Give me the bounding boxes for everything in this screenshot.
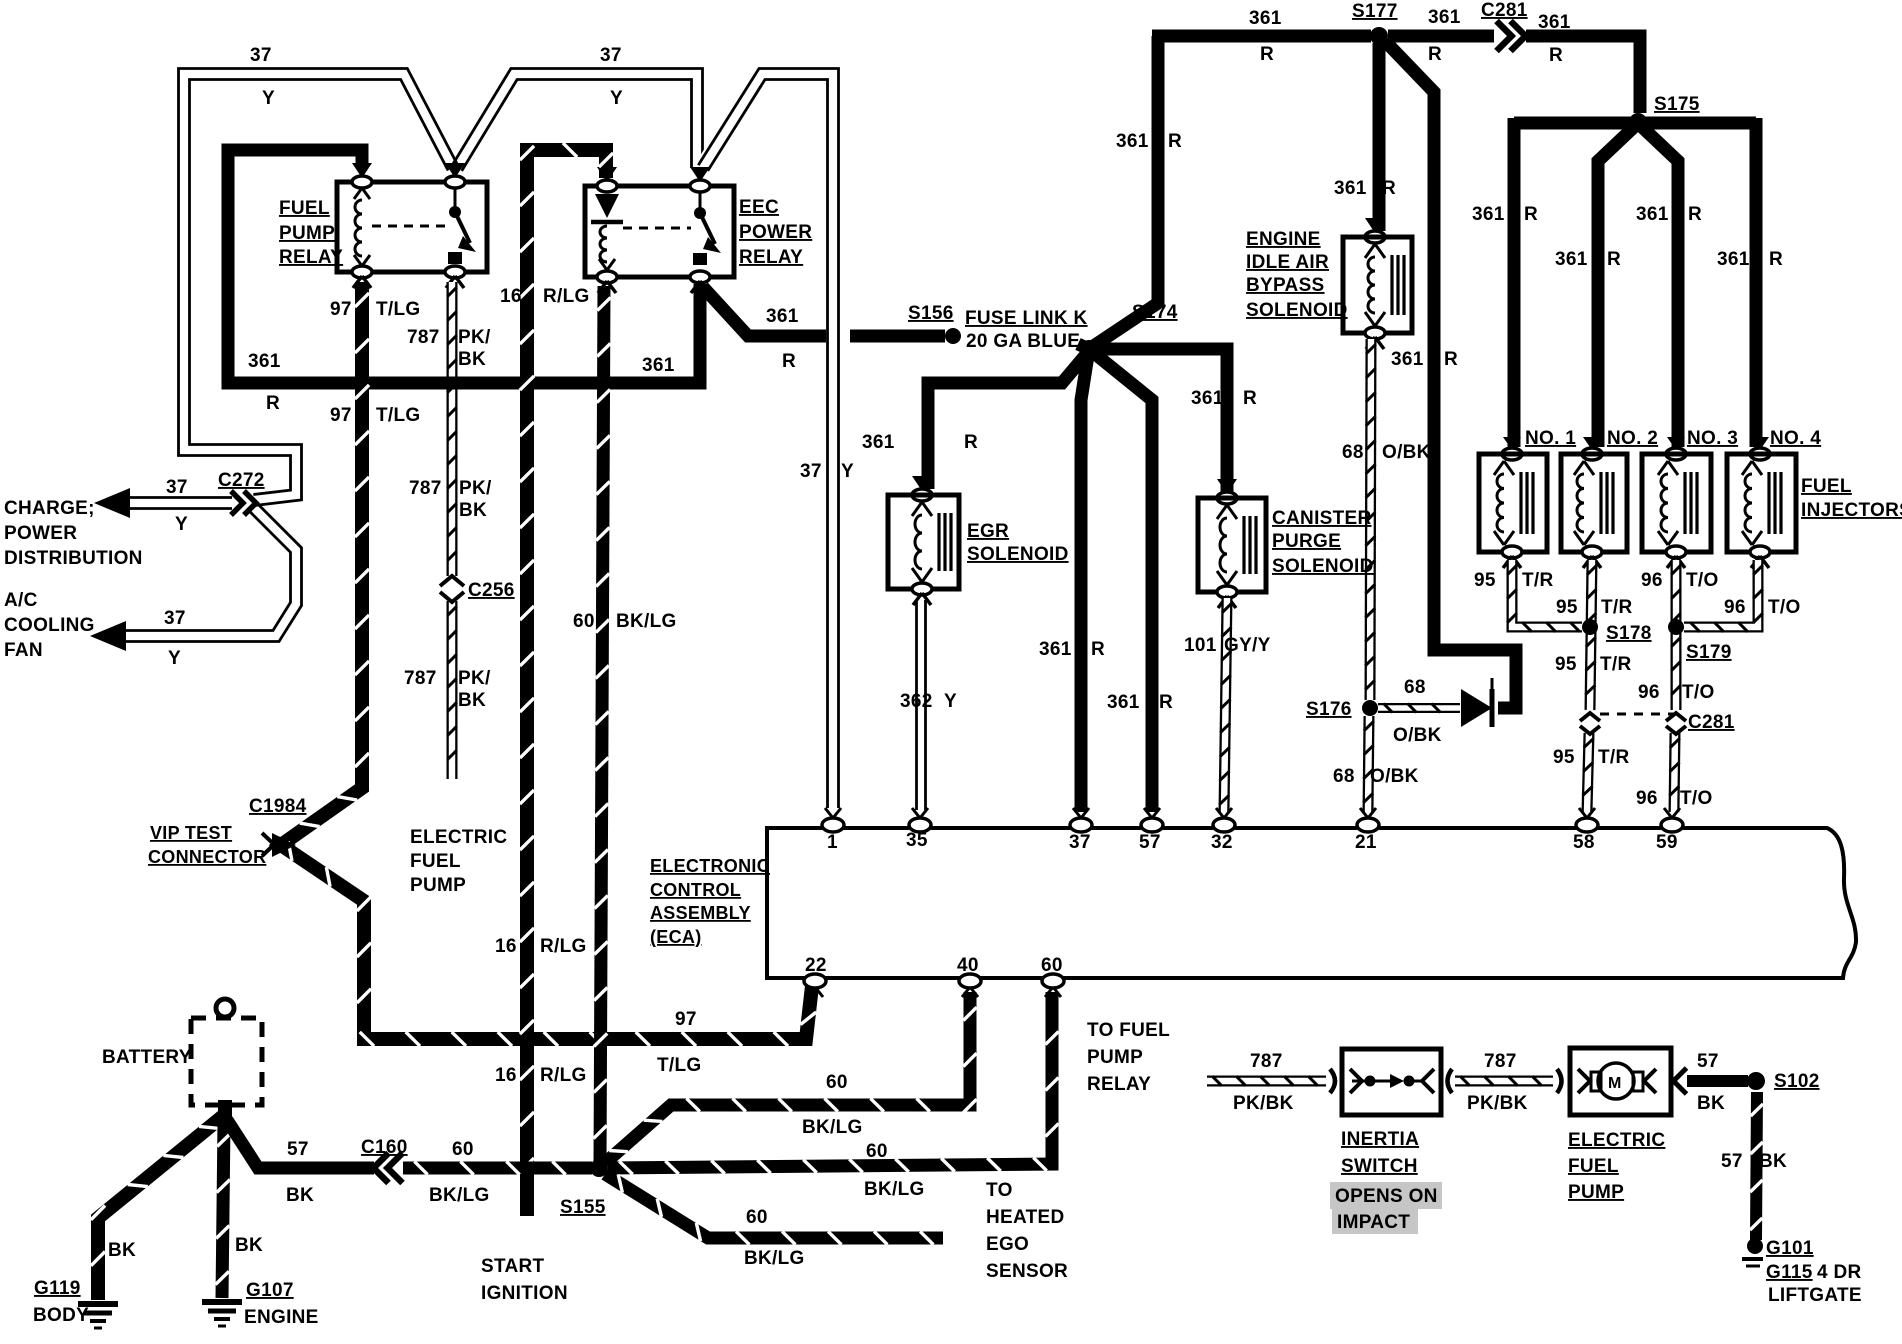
- connector symbol into electric fuel pump: [1557, 1069, 1562, 1093]
- svg-text:R: R: [1549, 45, 1563, 66]
- svg-text:FUEL: FUEL: [1568, 1156, 1619, 1177]
- svg-text:Y: Y: [944, 691, 957, 712]
- wire 37 Y loop: EEC relay pin to ECA pin 1: [698, 69, 838, 809]
- svg-text:PURGE: PURGE: [1272, 531, 1341, 552]
- svg-text:FUEL: FUEL: [410, 851, 461, 872]
- label 60 BK/LG pin60: [864, 1141, 925, 1200]
- fuel pump relay box: [337, 182, 487, 272]
- label ECA pin 32: [1211, 832, 1233, 853]
- label 60 BK/LG relay wire: [573, 611, 677, 632]
- svg-text:RELAY: RELAY: [1087, 1074, 1151, 1095]
- svg-text:O/BK: O/BK: [1393, 725, 1442, 746]
- label NO. 2: [1607, 428, 1658, 449]
- label INERTIA SWITCH: [1341, 1129, 1419, 1177]
- svg-text:EGO: EGO: [986, 1234, 1029, 1255]
- fuel injector NO. 1 output pin: [1502, 546, 1522, 568]
- svg-text:Y: Y: [168, 648, 181, 669]
- label BATTERY: [102, 1047, 192, 1068]
- svg-text:37: 37: [250, 45, 272, 66]
- svg-text:95: 95: [1553, 747, 1575, 768]
- label ECA pin 40: [957, 955, 979, 976]
- svg-text:OPENS ON: OPENS ON: [1335, 1186, 1438, 1207]
- wire 60 BK/LG: EEC relay to splice S155: [594, 286, 611, 1162]
- wire 361 R: fuse link segment: [850, 330, 945, 343]
- wire 37 Y: C272 to A/C cooling fan branch: [116, 504, 302, 641]
- label 97 T/LG bottom run: [657, 1009, 701, 1076]
- svg-text:37: 37: [1069, 832, 1091, 853]
- svg-text:R/LG: R/LG: [540, 936, 587, 957]
- ECA pin 60: [1042, 974, 1064, 997]
- svg-text:R: R: [1688, 204, 1702, 225]
- label 37 Y vertical: [800, 461, 854, 482]
- canister purge solenoid internals: [1217, 505, 1256, 585]
- label 16 R/LG lower: [495, 1065, 587, 1086]
- label FUSE LINK K: [965, 308, 1088, 329]
- fuel injector NO. 3 input pin: [1666, 437, 1686, 460]
- label C256: [468, 580, 515, 601]
- label 787 PK/BK left: [1233, 1051, 1294, 1114]
- wire 60 BK/LG: C160 to splice S155: [403, 1161, 592, 1174]
- connector C256 symbol: [440, 576, 464, 602]
- svg-text:G107: G107: [246, 1280, 294, 1301]
- label C160: [361, 1137, 408, 1158]
- ECA pin 35: [909, 808, 931, 832]
- label FUEL PUMP RELAY: [279, 198, 343, 268]
- wire 361 R: C281 to S175: [1526, 36, 1640, 113]
- label EEC POWER RELAY: [739, 197, 812, 268]
- svg-text:40: 40: [957, 955, 979, 976]
- svg-text:S156: S156: [908, 303, 954, 324]
- label EGR SOLENOID: [967, 521, 1069, 565]
- EGR solenoid input pin: [912, 476, 932, 501]
- text TO HEATED EGO SENSOR: [986, 1180, 1068, 1282]
- label 60 BK/LG ego: [744, 1207, 805, 1269]
- label G115: [1766, 1262, 1813, 1283]
- svg-text:BODY: BODY: [33, 1305, 89, 1326]
- label 361 R loop left: [248, 351, 281, 414]
- svg-text:IDLE AIR: IDLE AIR: [1246, 252, 1329, 273]
- splice S102: [1747, 1072, 1765, 1090]
- label ECA pin 22: [805, 955, 827, 976]
- svg-text:16: 16: [495, 1065, 517, 1086]
- label 361 R EGR feed: [862, 432, 978, 453]
- splice S178: [1582, 619, 1598, 635]
- label 361 R near EEC pin: [766, 306, 799, 372]
- label 95 T/R below S178: [1555, 654, 1632, 675]
- label S102: [1774, 1071, 1820, 1092]
- svg-text:R: R: [1524, 204, 1538, 225]
- wire 101 GY/Y: canister purge to ECA pin 32: [1219, 598, 1231, 812]
- wire 361 R: S174 to ECA pin 57: [1089, 349, 1152, 812]
- svg-text:R: R: [1168, 131, 1182, 152]
- ECA pin 40: [959, 974, 981, 997]
- label 96 T/O below S179: [1638, 682, 1715, 703]
- canister purge solenoid output pin: [1217, 586, 1237, 608]
- svg-text:37: 37: [166, 477, 188, 498]
- svg-text:R: R: [1769, 249, 1783, 270]
- label 37 Y top-mid: [600, 45, 623, 109]
- svg-text:(ECA): (ECA): [650, 927, 702, 947]
- label ENGINE IDLE AIR BYPASS SOLENOID: [1246, 229, 1348, 321]
- diode symbol at S176 branch: [1461, 678, 1492, 727]
- svg-text:4 DR: 4 DR: [1817, 1262, 1862, 1283]
- label 361 R injector2: [1555, 249, 1621, 270]
- wire 68 O/BK: idle air solenoid to S176: [1365, 339, 1376, 700]
- wire 362 Y: EGR solenoid to ECA pin 35: [917, 600, 926, 810]
- inertia switch box: [1342, 1049, 1441, 1115]
- label ECA pin 57: [1139, 832, 1161, 853]
- svg-text:BK/LG: BK/LG: [802, 1117, 863, 1138]
- svg-text:POWER: POWER: [4, 523, 77, 544]
- wire 361 R loop: EEC relay output to fuel pump relay coil: [228, 150, 700, 383]
- svg-text:SENSOR: SENSOR: [986, 1261, 1068, 1282]
- svg-text:96: 96: [1636, 788, 1658, 809]
- label ELECTRIC FUEL PUMP: [1568, 1130, 1665, 1203]
- svg-text:S176: S176: [1306, 699, 1352, 720]
- label 37 Y ac wire: [164, 608, 186, 669]
- connector symbol into inertia switch: [1330, 1069, 1335, 1093]
- svg-text:361: 361: [862, 432, 895, 453]
- svg-text:S177: S177: [1352, 1, 1398, 22]
- svg-text:PUMP: PUMP: [279, 223, 335, 244]
- label ECA pin 1: [827, 832, 838, 853]
- svg-text:361: 361: [1428, 7, 1461, 28]
- battery symbol: [191, 999, 262, 1105]
- wire 95 T/R: injector NO.2 to C281: [1585, 560, 1596, 710]
- connector symbol out of inertia switch: [1448, 1069, 1453, 1093]
- label 361 R after C281: [1538, 12, 1571, 66]
- svg-text:ASSEMBLY: ASSEMBLY: [650, 903, 751, 923]
- fuel injector NO. 4 output pin: [1750, 546, 1770, 568]
- fuel injector NO. 3 box: [1642, 454, 1711, 552]
- svg-text:G101: G101: [1766, 1238, 1814, 1259]
- svg-text:FAN: FAN: [4, 640, 43, 661]
- svg-text:37: 37: [600, 45, 622, 66]
- svg-text:32: 32: [1211, 832, 1233, 853]
- ECA pin 37: [1070, 808, 1092, 832]
- arrow to charge/power distribution: [94, 488, 130, 518]
- label 361 R on riser: [1116, 131, 1182, 152]
- label CANISTER PURGE SOLENOID: [1272, 508, 1374, 577]
- svg-text:T/R: T/R: [1598, 747, 1630, 768]
- idle air bypass solenoid output pin: [1365, 327, 1385, 349]
- label 787 PK/BK middle: [409, 478, 492, 521]
- svg-text:BK: BK: [286, 1185, 314, 1206]
- svg-text:787: 787: [1484, 1051, 1517, 1072]
- svg-text:R: R: [1607, 249, 1621, 270]
- svg-text:787: 787: [404, 668, 437, 689]
- svg-text:O/BK: O/BK: [1370, 766, 1419, 787]
- svg-text:S179: S179: [1686, 642, 1732, 663]
- fuel injector NO. 2 internals: [1574, 461, 1613, 545]
- wire 57 BK: battery to connector C160: [227, 1120, 374, 1168]
- svg-text:SOLENOID: SOLENOID: [1246, 300, 1348, 321]
- ECA pin 57: [1141, 808, 1163, 832]
- svg-text:G119: G119: [34, 1278, 81, 1299]
- svg-text:O/BK: O/BK: [1382, 442, 1431, 463]
- svg-text:BYPASS: BYPASS: [1246, 275, 1325, 296]
- label C1984: [249, 796, 307, 817]
- svg-text:361: 361: [1717, 249, 1750, 270]
- wire 361 R: S177 down to idle air solenoid: [1373, 43, 1386, 231]
- svg-text:16: 16: [500, 286, 522, 307]
- splice S174: [1080, 340, 1098, 358]
- svg-text:T/R: T/R: [1522, 570, 1554, 591]
- label ECA pin 59: [1656, 832, 1678, 853]
- wire 60 BK/LG: S155 to ECA pin 40: [605, 992, 977, 1163]
- svg-text:IMPACT: IMPACT: [1337, 1212, 1410, 1233]
- fuel injector NO. 1 box: [1479, 454, 1547, 552]
- wire 361 R: S175 rail down to injector NO.1: [1508, 118, 1521, 447]
- svg-text:60: 60: [452, 1139, 474, 1160]
- svg-text:BK/LG: BK/LG: [616, 611, 677, 632]
- label 361 R S176 drop: [1391, 349, 1458, 370]
- svg-text:101: 101: [1184, 635, 1217, 656]
- svg-text:T/R: T/R: [1600, 654, 1632, 675]
- svg-text:361: 361: [1191, 388, 1224, 409]
- wire 96 T/O: below C281 to ECA pin 59: [1669, 733, 1679, 812]
- label G107 ENGINE: [246, 1280, 294, 1301]
- wire 361 R: S175 to injector NO.2: [1598, 127, 1634, 447]
- svg-text:60: 60: [866, 1141, 888, 1162]
- fuel injector NO. 2 input pin: [1582, 437, 1602, 460]
- svg-text:BK: BK: [459, 500, 487, 521]
- svg-text:RELAY: RELAY: [279, 247, 343, 268]
- svg-text:97: 97: [330, 299, 352, 320]
- text CHARGE POWER DISTRIBUTION: [4, 498, 143, 569]
- fuel injector NO. 3 internals: [1658, 461, 1697, 545]
- label 361 R pin57 wire: [1107, 692, 1173, 713]
- svg-text:C1984: C1984: [249, 796, 307, 817]
- svg-text:SOLENOID: SOLENOID: [967, 544, 1069, 565]
- svg-text:787: 787: [409, 478, 442, 499]
- svg-text:EGR: EGR: [967, 521, 1009, 542]
- svg-text:POWER: POWER: [739, 222, 812, 243]
- svg-text:BK: BK: [108, 1240, 136, 1261]
- label 96 T/O above pin59: [1636, 788, 1713, 809]
- label 361 R after S177: [1428, 7, 1461, 65]
- electric fuel pump box: [1570, 1048, 1671, 1115]
- svg-text:97: 97: [330, 405, 352, 426]
- label NO. 1: [1525, 428, 1576, 449]
- svg-text:CHARGE;: CHARGE;: [4, 498, 95, 519]
- svg-text:HEATED: HEATED: [986, 1207, 1065, 1228]
- svg-text:BK/LG: BK/LG: [744, 1248, 805, 1269]
- svg-text:21: 21: [1355, 832, 1377, 853]
- svg-text:NO. 4: NO. 4: [1770, 428, 1821, 449]
- svg-text:PK/: PK/: [458, 668, 491, 689]
- svg-text:361: 361: [1334, 178, 1367, 199]
- label 68 O/BK upper: [1342, 442, 1431, 463]
- svg-text:68: 68: [1333, 766, 1355, 787]
- svg-text:M: M: [1608, 1075, 1622, 1092]
- label 60 BK/LG pin40: [802, 1072, 863, 1138]
- svg-text:361: 361: [1039, 639, 1072, 660]
- svg-text:Y: Y: [841, 461, 854, 482]
- label 20 GA BLUE: [966, 331, 1080, 352]
- label 361 R pin37 wire: [1039, 639, 1105, 660]
- fuel injector NO. 1 internals: [1494, 461, 1533, 545]
- svg-text:C281: C281: [1688, 712, 1735, 733]
- svg-text:361: 361: [1116, 131, 1149, 152]
- connector C272 symbol: [231, 491, 256, 515]
- label 361 R injector3: [1636, 204, 1702, 225]
- svg-text:T/LG: T/LG: [657, 1055, 701, 1076]
- wire 361 R: top rail to S177: [1152, 30, 1371, 43]
- svg-text:ELECTRONIC: ELECTRONIC: [650, 856, 770, 876]
- wire 16 R/LG: EEC relay to start ignition: [520, 143, 613, 1216]
- wire 96 T/O: injector NO.3 to C281: [1671, 560, 1681, 710]
- wire 361 R: S156 to junction S174 (short stub): [1078, 344, 1089, 349]
- wire 97 T/LG: fuel pump relay to VIP connector to ECA pin 22: [281, 282, 816, 1046]
- splice S177: [1370, 27, 1388, 45]
- wire 60 BK/LG: S155 to heated EGO sensor: [605, 1174, 943, 1245]
- label BK left ground wire: [108, 1240, 136, 1261]
- fuel injector NO. 4 input pin: [1750, 437, 1770, 460]
- svg-text:R/LG: R/LG: [540, 1065, 587, 1086]
- wire 57 BK: S102 to ground G101: [1750, 1092, 1763, 1240]
- label ENGINE: [244, 1307, 319, 1328]
- ground G101 symbol: [1742, 1238, 1763, 1266]
- svg-text:VIP TEST: VIP TEST: [150, 823, 232, 843]
- label 57 BK ground run: [1721, 1151, 1787, 1172]
- svg-text:T/O: T/O: [1682, 682, 1715, 703]
- svg-text:68: 68: [1342, 442, 1364, 463]
- label G101: [1766, 1238, 1814, 1259]
- inertia switch internals: [1350, 1069, 1434, 1093]
- svg-text:96: 96: [1724, 597, 1746, 618]
- svg-text:95: 95: [1556, 597, 1578, 618]
- label S174: [1132, 302, 1178, 323]
- label 97 T/LG mid: [330, 405, 420, 426]
- EEC power relay box: [585, 186, 734, 277]
- svg-text:60: 60: [746, 1207, 768, 1228]
- label S178: [1606, 623, 1652, 644]
- label 361 loop right: [642, 355, 675, 376]
- label 787 PK/BK lower: [404, 668, 491, 711]
- label 787 PK/BK upper: [407, 327, 491, 370]
- label 95 T/R inj2: [1556, 597, 1633, 618]
- connector C281 (lower) symbols on wires 58 and 59: [1580, 713, 1686, 734]
- wire 361 R: S174 to canister purge solenoid: [1089, 349, 1227, 492]
- svg-text:361: 361: [766, 306, 799, 327]
- svg-text:57: 57: [1697, 1051, 1719, 1072]
- svg-text:Y: Y: [175, 514, 188, 535]
- wire 68 O/BK: S176 to ECA pin 21: [1363, 716, 1374, 812]
- label 361 R injector1: [1472, 204, 1538, 225]
- label LIFTGATE: [1768, 1285, 1862, 1306]
- svg-text:361: 361: [1107, 692, 1140, 713]
- svg-text:68: 68: [1404, 677, 1426, 698]
- svg-text:R: R: [266, 393, 280, 414]
- fuel injector NO. 1 input pin: [1502, 437, 1522, 460]
- wire 68 O/BK: S176 to diode: [1378, 704, 1460, 713]
- ECA pin 21: [1357, 808, 1379, 832]
- wire 57 BK: fuel pump to S102: [1687, 1075, 1748, 1087]
- svg-text:20 GA BLUE: 20 GA BLUE: [966, 331, 1080, 352]
- wire battery positive stub: [218, 1100, 232, 1122]
- svg-text:57: 57: [1721, 1151, 1743, 1172]
- svg-text:TO: TO: [986, 1180, 1013, 1201]
- label 68 / O-BK at S176 branch: [1393, 677, 1442, 746]
- fuel injector NO. 4 box: [1727, 454, 1796, 552]
- label ELECTRONIC CONTROL ASSEMBLY (ECA): [650, 856, 770, 947]
- canister purge solenoid box: [1198, 498, 1266, 592]
- svg-text:BK: BK: [458, 349, 486, 370]
- connector C281 symbol (top): [1497, 21, 1526, 51]
- ECA pin 59: [1661, 808, 1683, 832]
- wire 361 R: S177 diagonal to S176 diode: [1385, 41, 1516, 708]
- svg-text:NO. 1: NO. 1: [1525, 428, 1576, 449]
- svg-text:LIFTGATE: LIFTGATE: [1768, 1285, 1862, 1306]
- label S155: [560, 1197, 606, 1218]
- label BK right ground wire: [235, 1235, 263, 1256]
- fuel injector NO. 2 output pin: [1582, 546, 1602, 568]
- label S177: [1352, 1, 1398, 22]
- svg-text:787: 787: [407, 327, 440, 348]
- label ECA pin 58: [1573, 832, 1595, 853]
- svg-text:ENGINE: ENGINE: [244, 1307, 319, 1328]
- svg-text:BK: BK: [1759, 1151, 1787, 1172]
- svg-text:FUEL: FUEL: [279, 198, 330, 219]
- fuel injector NO. 4 internals: [1742, 461, 1781, 545]
- OPENS ON IMPACT note with gray background: [1330, 1182, 1442, 1234]
- wire 37 Y loop: fuel pump relay pin to EEC relay pin: [452, 69, 702, 171]
- label BODY: [33, 1305, 89, 1326]
- EGR solenoid box: [888, 495, 959, 589]
- label VIP TEST CONNECTOR: [148, 823, 266, 867]
- svg-text:Y: Y: [610, 88, 623, 109]
- wire 361 R: S174 to EGR solenoid: [928, 351, 1089, 489]
- wire 787 PK/BK: inertia switch to electric fuel pump: [1455, 1076, 1553, 1086]
- text START IGNITION: [481, 1256, 568, 1304]
- label 16 R/LG mid: [495, 936, 587, 957]
- svg-text:96: 96: [1641, 570, 1663, 591]
- ground G107 symbol: [202, 1302, 242, 1326]
- label 361 R top rail: [1249, 8, 1282, 65]
- svg-text:R: R: [782, 351, 796, 372]
- fuel injector NO. 3 output pin: [1666, 546, 1686, 568]
- svg-text:37: 37: [164, 608, 186, 629]
- svg-text:SOLENOID: SOLENOID: [1272, 556, 1374, 577]
- label S179: [1686, 642, 1732, 663]
- label 37 Y top-left: [250, 45, 275, 109]
- EGR solenoid internals: [912, 502, 951, 582]
- svg-text:FUSE LINK K: FUSE LINK K: [965, 308, 1088, 329]
- label 361 R canister feed: [1191, 388, 1257, 409]
- label 101 GY/Y: [1184, 635, 1271, 656]
- wire 361 R: S175 to injector NO.3: [1642, 127, 1678, 447]
- label ECA pin 21: [1355, 832, 1377, 853]
- svg-text:IGNITION: IGNITION: [481, 1283, 568, 1304]
- svg-text:60: 60: [826, 1072, 848, 1093]
- wire 96 T/O: injector NO.4 to S179: [1684, 560, 1763, 632]
- svg-text:60: 60: [1041, 955, 1063, 976]
- svg-text:R: R: [1159, 692, 1173, 713]
- svg-text:PK/BK: PK/BK: [1233, 1093, 1294, 1114]
- label S176: [1306, 699, 1352, 720]
- svg-text:EEC: EEC: [739, 197, 779, 218]
- svg-text:361: 361: [1555, 249, 1588, 270]
- svg-text:787: 787: [1250, 1051, 1283, 1072]
- label S156: [908, 303, 954, 324]
- splice S155: [590, 1159, 608, 1177]
- wire 95 T/R: below C281 to ECA pin 58: [1583, 733, 1594, 812]
- svg-text:35: 35: [906, 830, 928, 851]
- svg-text:CONNECTOR: CONNECTOR: [148, 847, 266, 867]
- svg-text:361: 361: [1538, 12, 1571, 33]
- svg-text:361: 361: [1472, 204, 1505, 225]
